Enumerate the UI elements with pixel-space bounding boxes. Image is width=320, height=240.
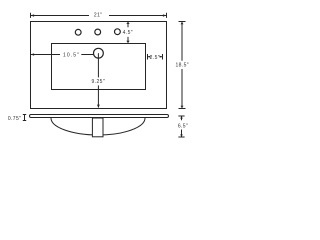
top dimension line 21"	[31, 15, 90, 17]
10.5" leader	[31, 54, 61, 56]
18.5" right dim	[181, 22, 183, 61]
faucet hole circle 3	[115, 29, 121, 35]
inner rect (basin cutout)	[52, 44, 146, 90]
2.5" dim	[148, 56, 151, 58]
svg-text:21": 21"	[94, 12, 103, 18]
5.5" bottom dim	[181, 116, 183, 120]
4.5" vertical dim	[127, 22, 129, 28]
faucet hole circle 2	[95, 29, 101, 35]
bowl arc (front view)	[51, 118, 145, 135]
main rect (vanity top view)	[31, 22, 167, 109]
svg-text:2.5": 2.5"	[150, 55, 160, 61]
faucet hole circle 1	[75, 29, 81, 35]
svg-text:10.5": 10.5"	[63, 52, 80, 58]
drain circle	[94, 48, 104, 58]
svg-text:6.5": 6.5"	[178, 124, 188, 130]
svg-text:18.5": 18.5"	[175, 63, 189, 69]
svg-text:0.75": 0.75"	[8, 116, 22, 122]
0.75" thickness marker	[24, 115, 26, 121]
slab (front view top)	[30, 115, 169, 118]
svg-text:9.25": 9.25"	[92, 79, 106, 85]
svg-text:4.5": 4.5"	[123, 30, 133, 36]
drain tailpiece	[92, 118, 103, 137]
9.25" vertical line	[97, 53, 99, 77]
